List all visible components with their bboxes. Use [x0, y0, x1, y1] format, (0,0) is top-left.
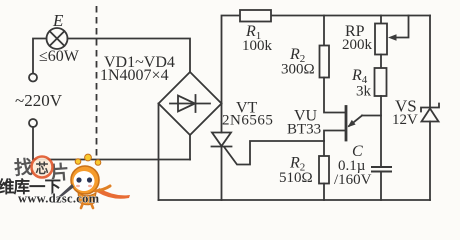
svg-text:≤60W: ≤60W	[39, 48, 80, 65]
potentiometer RP body	[375, 24, 387, 55]
UJT emitter wire with arrow	[348, 116, 382, 128]
thyristor gate wire	[225, 141, 325, 165]
thyristor VT	[212, 133, 232, 147]
resistor R2 300 top lead	[323, 16, 325, 46]
RP top lead	[380, 16, 382, 24]
thyristor VT anode wire	[221, 104, 223, 133]
svg-text:510Ω: 510Ω	[279, 170, 313, 186]
terminal bottom	[29, 119, 37, 127]
face	[74, 171, 95, 191]
right arm	[95, 186, 110, 191]
head hood	[71, 166, 99, 194]
right rail bottom	[429, 122, 431, 201]
svg-text:12V: 12V	[392, 112, 418, 128]
resistor R2 510 top lead	[323, 141, 325, 156]
wire node gate junction up to UJT B1	[324, 131, 346, 142]
svg-text:3k: 3k	[356, 84, 372, 100]
thyristor cathode wire to ground rail	[221, 147, 223, 201]
svg-text:www.dzsc.com: www.dzsc.com	[18, 192, 100, 206]
svg-text:1N4007×4: 1N4007×4	[100, 67, 169, 84]
watermark swoosh	[97, 188, 130, 199]
right rail top	[429, 16, 431, 108]
svg-text:芯: 芯	[36, 161, 49, 176]
body	[78, 192, 96, 205]
wire R4 down through emitter node to capacitor	[380, 96, 382, 166]
svg-text:200k: 200k	[342, 37, 373, 53]
terminal top	[29, 74, 37, 82]
pen	[56, 184, 74, 200]
wire bridge bottom vertex down to source return	[189, 135, 191, 160]
svg-text:E: E	[52, 11, 64, 30]
svg-text:100k: 100k	[242, 38, 273, 54]
watermark find-chip text	[13, 156, 70, 184]
capacitor C	[372, 167, 391, 172]
wire R2-300 to UJT B2	[324, 78, 346, 113]
zener diode VS	[421, 104, 439, 122]
wire bridge right vertex up + top rail	[222, 16, 431, 104]
crown balls	[85, 154, 92, 161]
wire lamp-left to top terminal	[33, 39, 47, 74]
wire RP to R4	[380, 55, 382, 69]
svg-text:~220V: ~220V	[15, 91, 63, 110]
resistor R2 510 body	[319, 156, 329, 184]
svg-text:/160V: /160V	[334, 172, 372, 188]
svg-text:300Ω: 300Ω	[281, 62, 315, 78]
watermark mascot	[56, 154, 110, 208]
lamp E	[47, 28, 68, 49]
resistor R4 body	[375, 68, 387, 96]
svg-text:2N6565: 2N6565	[222, 113, 273, 129]
resistor R1 body	[240, 10, 271, 22]
watermark emblem circle	[32, 157, 53, 178]
resistor R2 300 body	[320, 46, 330, 78]
legs	[81, 203, 93, 208]
bridge diode symbol	[170, 95, 210, 112]
wire bottom terminal to bridge bottom	[33, 127, 190, 160]
dashed separator line	[96, 6, 98, 162]
resistor R2 510 bottom lead	[323, 184, 325, 201]
wire lamp-right to bridge top	[68, 39, 191, 73]
capacitor bottom lead	[380, 173, 382, 201]
UJT VU bar	[345, 107, 348, 141]
ground rail	[159, 199, 431, 201]
RP wiper arrow	[388, 16, 409, 41]
wire bridge left vertex down to ground rail	[158, 104, 160, 201]
bridge rectifier VD1-VD4 diamond	[159, 72, 222, 135]
svg-text:BT33: BT33	[287, 122, 321, 138]
